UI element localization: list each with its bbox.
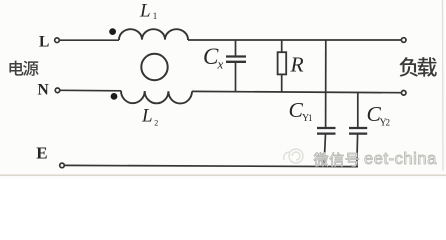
svg-text:E: E (36, 143, 47, 162)
svg-text:L: L (139, 0, 151, 21)
svg-text:1: 1 (153, 11, 158, 21)
svg-text:x: x (217, 57, 224, 72)
svg-text:R: R (290, 53, 304, 77)
svg-text:L: L (39, 34, 49, 51)
svg-text:2: 2 (386, 118, 391, 128)
svg-text:2: 2 (154, 118, 158, 127)
svg-text:eet-china: eet-china (364, 150, 437, 168)
svg-text:N: N (38, 82, 49, 99)
svg-text:L: L (141, 106, 153, 127)
svg-text:1: 1 (308, 113, 313, 123)
